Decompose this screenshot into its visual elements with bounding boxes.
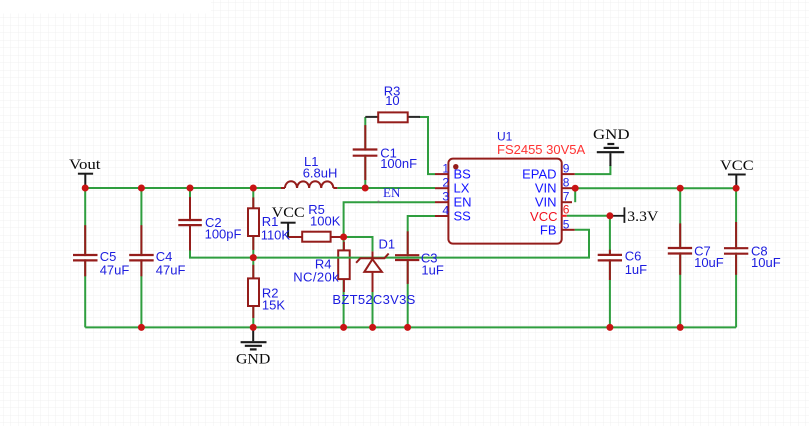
junction at R1/R2 FB node [250, 254, 257, 261]
net flag 3.3V [612, 207, 625, 223]
wire: FB net from C2 to pin 5 [189, 230, 589, 258]
svg-text:10uF: 10uF [751, 255, 781, 270]
svg-text:BS: BS [454, 167, 472, 182]
svg-text:5: 5 [563, 218, 570, 232]
svg-text:8: 8 [563, 176, 570, 190]
capacitor C8 [724, 222, 748, 275]
svg-text:100pF: 100pF [205, 226, 242, 241]
wire: C8 column [735, 188, 737, 327]
svg-text:7: 7 [563, 190, 570, 204]
capacitor C5 [73, 225, 98, 276]
port VCC (top right) [728, 175, 746, 188]
wire: EPAD to GND [575, 165, 611, 174]
wire: R1/R2 column [252, 188, 254, 327]
svg-text:6: 6 [563, 203, 570, 217]
wire: pin 7 jog [574, 187, 576, 202]
wire: main Vout/LX rail [85, 187, 435, 189]
junction at Vout port / C5 column [82, 185, 89, 192]
junction at C4 / GND rail [138, 324, 145, 331]
junction at pin 7/8 VIN rail [572, 185, 579, 192]
svg-text:9: 9 [563, 162, 570, 176]
svg-text:NC/20k: NC/20k [293, 270, 339, 285]
svg-text:15K: 15K [262, 298, 285, 313]
wire: R3 to pin 1 [419, 117, 435, 174]
capacitor C3 [395, 231, 419, 284]
svg-text:LX: LX [454, 181, 470, 196]
wire: SS net / C3 column [408, 216, 435, 327]
ground (bottom) [241, 328, 267, 349]
pin 9 stub [562, 173, 575, 175]
wire: EN net from pin 3 [344, 202, 435, 237]
capacitor C7 [668, 223, 692, 274]
svg-text:110K: 110K [261, 228, 291, 243]
pin 5 stub [562, 229, 575, 231]
pin 1 stub [435, 173, 448, 175]
svg-text:GND: GND [236, 352, 270, 368]
pin 7 stub [562, 201, 572, 203]
junction at C4 / Vout rail [138, 185, 145, 192]
resistor R2 [248, 265, 259, 318]
junction at C7 / VIN rail [677, 185, 684, 192]
wire: C4 column [140, 188, 142, 327]
resistor R1 [248, 197, 259, 250]
port Vout [78, 174, 93, 186]
svg-text:VIN: VIN [535, 181, 557, 196]
svg-text:1uF: 1uF [421, 262, 443, 277]
junction at D1 / GND rail [369, 324, 376, 331]
port VCC (mid, above R5) [281, 223, 296, 237]
junction at C6 / GND rail [606, 324, 613, 331]
capacitor C1 [353, 125, 378, 180]
junction at C2 / Vout rail [187, 185, 194, 192]
svg-text:100K: 100K [310, 213, 341, 228]
pin 2 stub [435, 187, 448, 189]
resistor R5 [288, 232, 343, 242]
pin 3 stub [435, 201, 448, 203]
svg-text:EN: EN [454, 195, 472, 210]
svg-text:3.3V: 3.3V [627, 209, 658, 225]
svg-text:SS: SS [454, 209, 472, 224]
svg-text:47uF: 47uF [156, 262, 186, 277]
svg-text:BZT52C3V3S: BZT52C3V3S [332, 292, 415, 307]
svg-text:Vout: Vout [69, 157, 101, 173]
svg-text:VIN: VIN [535, 195, 557, 210]
capacitor C4 [129, 225, 154, 276]
junction at C8 / VCC port [733, 185, 740, 192]
svg-text:VCC: VCC [720, 158, 754, 174]
capacitor C6 [598, 250, 622, 280]
junction at R5/R4/D1 EN node [340, 234, 347, 241]
wire: C1 column [364, 117, 366, 188]
junction at 3.3V / C6 node [606, 212, 613, 219]
svg-text:4: 4 [442, 204, 449, 218]
inductor L1 [281, 181, 337, 188]
svg-text:1: 1 [442, 162, 449, 176]
resistor R4 [338, 242, 350, 292]
wire: bottom GND rail [85, 326, 736, 328]
svg-text:D1: D1 [379, 237, 396, 252]
svg-text:47uF: 47uF [100, 262, 130, 277]
svg-text:6.8uH: 6.8uH [303, 166, 338, 181]
pin 1 marker [453, 164, 458, 169]
junction at C1 / LX rail [362, 185, 369, 192]
wire: D1 bottom [372, 292, 374, 327]
wire: C7 column [679, 188, 681, 327]
svg-text:1uF: 1uF [625, 262, 647, 277]
junction at C3 / GND rail [404, 324, 411, 331]
wire: VIN rail to VCC [575, 187, 736, 189]
junction at R1 / Vout rail [250, 185, 257, 192]
net label EN anchor [378, 201, 380, 203]
svg-text:2: 2 [442, 176, 449, 190]
svg-text:100nF: 100nF [380, 156, 417, 171]
wire: C2 column + FB net to pin 5 [189, 188, 191, 258]
wire: pin 6 to 3.3V node [567, 215, 610, 217]
svg-text:FB: FB [540, 223, 557, 238]
pin 8 stub [562, 187, 575, 189]
svg-text:10uF: 10uF [694, 255, 724, 270]
svg-text:10: 10 [385, 93, 399, 108]
wire: C5 / Vout column [84, 188, 86, 327]
resistor R3 [365, 112, 420, 122]
junction at R2/GND symbol / GND rail [250, 324, 257, 331]
svg-text:EPAD: EPAD [522, 167, 556, 182]
wire: R4 column [343, 237, 345, 327]
svg-text:FS2455 30V5A: FS2455 30V5A [497, 142, 586, 157]
capacitor C2 [178, 197, 202, 250]
wire: C6 column [609, 216, 611, 328]
svg-text:3: 3 [442, 190, 449, 204]
junction at R4 / GND rail [340, 324, 347, 331]
wire: node to D1 [344, 237, 373, 251]
pin 6 stub (VCC net, highlighted) [562, 215, 567, 217]
diode D1 (zener BZT52C3V3S) [356, 251, 389, 292]
op-amp U1 FS2455 IC body [448, 159, 561, 244]
ground (top, near U1) [597, 144, 624, 166]
junction at C7 / GND rail [677, 324, 684, 331]
pin 4 stub [435, 215, 448, 217]
white panel top-left [0, 0, 211, 14]
svg-text:GND: GND [593, 127, 630, 143]
svg-text:EN: EN [383, 185, 401, 200]
